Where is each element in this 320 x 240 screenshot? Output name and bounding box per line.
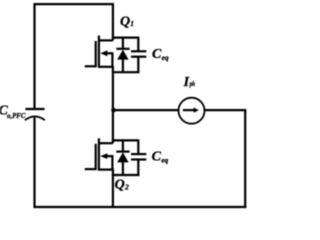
wire: top rail: [34, 3, 114, 5]
capacitor C_eq (lower): [131, 139, 146, 176]
svg-text:eq: eq: [162, 53, 169, 62]
wire: mid rail left of source: [114, 109, 179, 111]
svg-text:2: 2: [124, 183, 129, 192]
wire: Q1 drain drop: [112, 3, 114, 40]
wire: Q1 top bus: [112, 36, 138, 38]
wire: Q2 drain from mid node: [112, 110, 114, 143]
wire: bottom rail: [34, 206, 247, 208]
transistor Q1 (MOSFET): [85, 36, 114, 68]
wire: right rail: [244, 110, 246, 208]
current source I_ph: [179, 98, 205, 124]
transistor Q2 (MOSFET): [85, 138, 114, 170]
capacitor C_o,PFC: [25, 109, 45, 120]
wire: Q2 top bus: [112, 139, 138, 141]
wire: mid rail right of source: [204, 109, 246, 111]
wire: Q1 bottom bus: [112, 71, 139, 73]
svg-text:o,PFC: o,PFC: [7, 111, 26, 120]
svg-text:ph: ph: [189, 79, 195, 88]
diode D1 (body diode of Q1): [116, 37, 129, 73]
wire: Q1 source to mid node: [112, 67, 114, 110]
svg-text:Q: Q: [120, 14, 130, 29]
svg-text:I: I: [183, 75, 190, 90]
svg-text:1: 1: [130, 19, 134, 28]
svg-text:C: C: [152, 47, 162, 62]
svg-text:C: C: [152, 150, 162, 165]
svg-text:Q: Q: [115, 178, 125, 193]
diode D2 (body diode of Q2): [116, 139, 129, 175]
wire: left rail lower: [33, 118, 35, 208]
node: half-bridge midpoint junction: [111, 108, 116, 113]
wire: left rail upper: [33, 4, 35, 109]
wire: Q2 source to bottom rail: [112, 170, 114, 207]
wire: Q2 bottom bus: [112, 174, 139, 176]
capacitor C_eq (upper): [131, 37, 146, 74]
svg-text:eq: eq: [161, 155, 168, 164]
